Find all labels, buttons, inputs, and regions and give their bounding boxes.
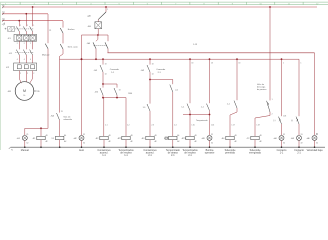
svg-text:permitido: permitido bbox=[225, 152, 236, 155]
svg-text:Velocidad baja: Velocidad baja bbox=[307, 149, 324, 152]
svg-text:Comando: Comando bbox=[110, 69, 120, 71]
svg-text:solenoide: solenoide bbox=[63, 119, 72, 121]
svg-text:descarga: descarga bbox=[257, 87, 266, 89]
svg-text:Valv. de: Valv. de bbox=[257, 84, 265, 86]
svg-text:M: M bbox=[23, 89, 26, 93]
svg-text:Comando: Comando bbox=[156, 69, 166, 71]
svg-text:Temporizado: Temporizado bbox=[196, 120, 208, 122]
svg-text:Manual: Manual bbox=[42, 54, 50, 56]
svg-text:1: 1 bbox=[107, 9, 108, 11]
svg-text:(-): (-) bbox=[273, 120, 275, 122]
svg-text:operante: operante bbox=[205, 152, 215, 155]
svg-text:(-): (-) bbox=[291, 120, 293, 122]
svg-text:Manual: Manual bbox=[21, 149, 29, 152]
svg-text:21: 21 bbox=[49, 30, 51, 32]
svg-text:de presion: de presion bbox=[257, 89, 266, 91]
svg-text:energizado: energizado bbox=[249, 152, 262, 155]
svg-text:Enclav.: Enclav. bbox=[68, 29, 75, 31]
svg-text:Valv. de: Valv. de bbox=[63, 116, 71, 118]
svg-text:Auto: Auto bbox=[79, 149, 85, 152]
